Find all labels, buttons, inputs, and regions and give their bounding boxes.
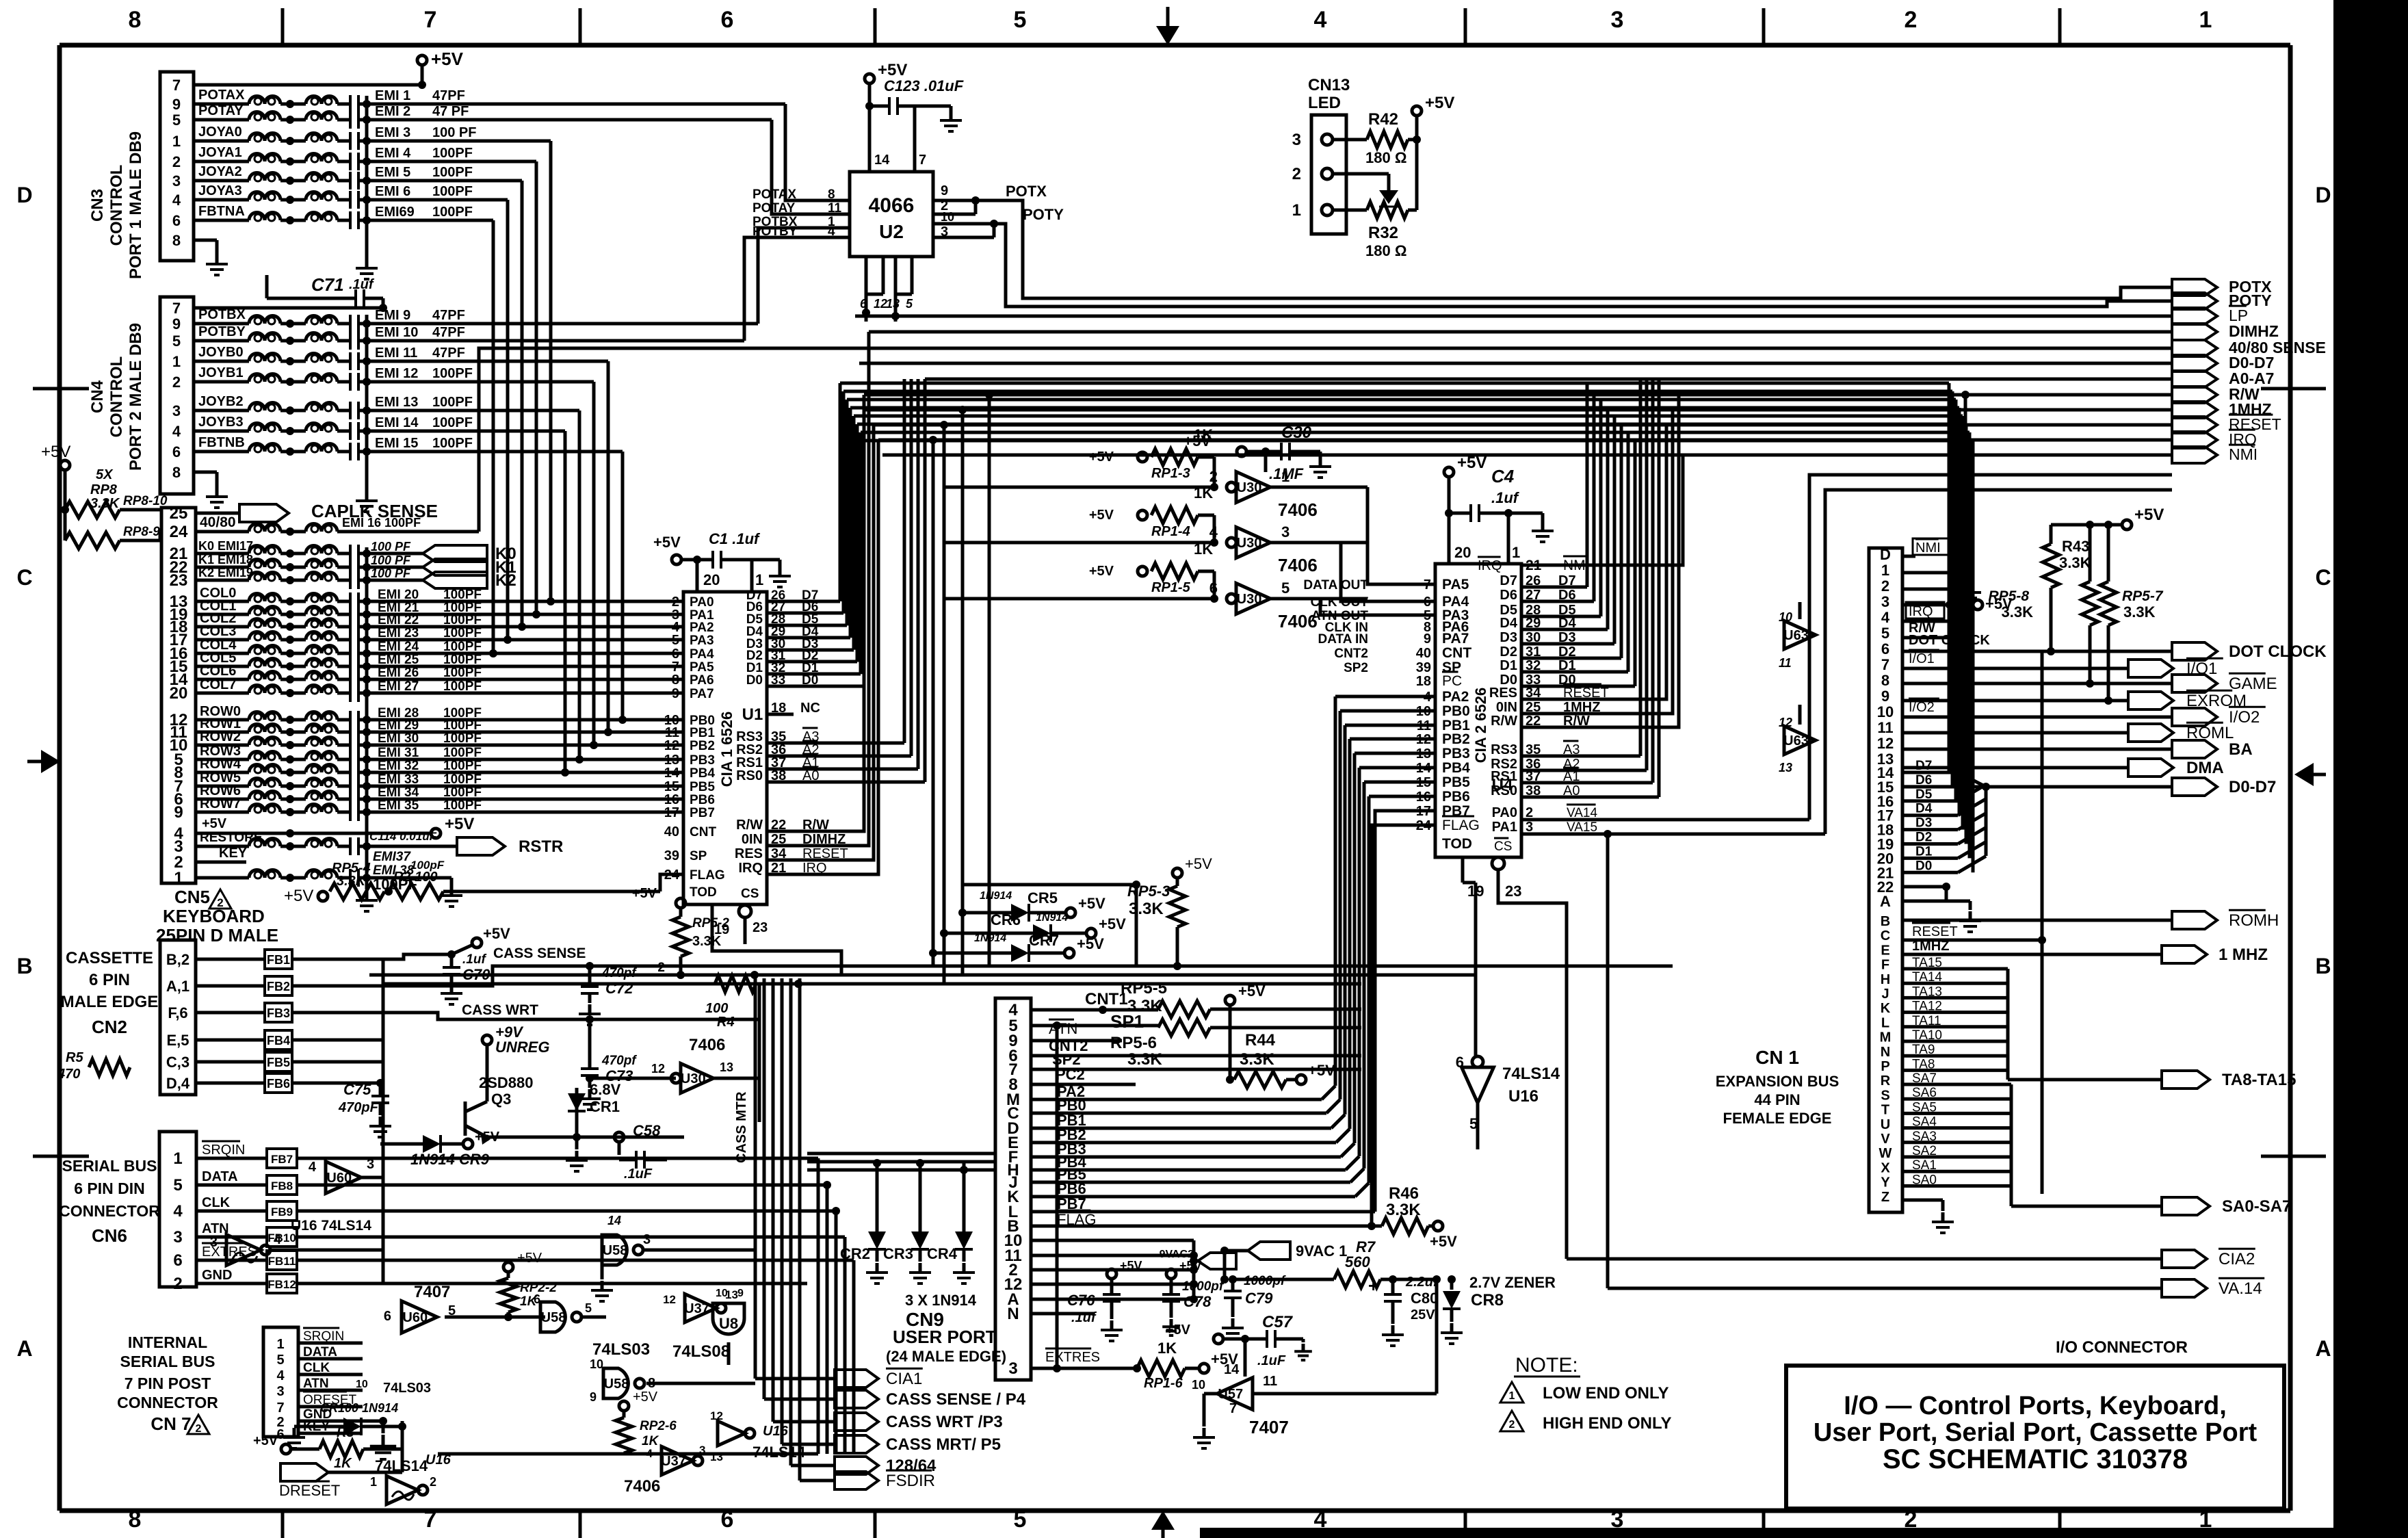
svg-text:1: 1 [1881, 562, 1889, 579]
svg-text:7407: 7407 [1249, 1417, 1289, 1437]
svg-text:FB3: FB3 [267, 1006, 290, 1020]
svg-text:U58: U58 [603, 1243, 628, 1258]
svg-text:TA8-TA15: TA8-TA15 [2222, 1071, 2296, 1089]
svg-text:BA: BA [2229, 740, 2253, 759]
svg-text:CONNECTOR: CONNECTOR [117, 1394, 218, 1411]
svg-text:PB1: PB1 [690, 726, 715, 740]
svg-text:CR3: CR3 [883, 1245, 913, 1262]
svg-text:6.8V: 6.8V [590, 1081, 621, 1098]
svg-text:14: 14 [874, 153, 890, 168]
svg-text:FB1: FB1 [267, 953, 290, 967]
svg-text:U8: U8 [719, 1315, 738, 1332]
svg-text:FB7: FB7 [271, 1153, 293, 1166]
svg-text:U37: U37 [661, 1454, 686, 1469]
svg-text:PA2: PA2 [690, 621, 714, 635]
svg-text:CLK: CLK [202, 1195, 231, 1210]
svg-text:+5V: +5V [1089, 449, 1114, 465]
svg-text:SERIAL BUS: SERIAL BUS [62, 1157, 157, 1175]
svg-text:EMI 16 100PF: EMI 16 100PF [342, 516, 421, 530]
svg-text:9VAC 1: 9VAC 1 [1296, 1242, 1347, 1260]
svg-text:DMA: DMA [2186, 759, 2224, 777]
svg-text:D4: D4 [1915, 802, 1933, 816]
svg-text:24: 24 [664, 868, 680, 883]
svg-text:R/W: R/W [736, 818, 763, 833]
svg-text:POTY: POTY [1023, 206, 1064, 223]
svg-text:3: 3 [1008, 1359, 1017, 1378]
svg-text:3.3K: 3.3K [692, 934, 722, 949]
svg-text:IRQ: IRQ [738, 861, 763, 876]
svg-text:A: A [1880, 893, 1891, 910]
svg-text:FB2: FB2 [267, 980, 290, 993]
svg-text:100PF: 100PF [432, 205, 473, 220]
svg-text:E,5: E,5 [166, 1032, 189, 1049]
svg-text:POTBX: POTBX [198, 307, 246, 322]
svg-text:2: 2 [1292, 165, 1301, 183]
svg-text:IRQ: IRQ [1478, 558, 1502, 573]
svg-text:U30: U30 [681, 1071, 706, 1086]
svg-text:13: 13 [1779, 761, 1792, 774]
svg-text:+5V: +5V [1089, 508, 1114, 523]
svg-text:FBTNA: FBTNA [198, 204, 245, 219]
svg-text:13: 13 [720, 1060, 733, 1074]
svg-text:+5V: +5V [632, 886, 657, 901]
svg-text:4: 4 [173, 1202, 183, 1221]
svg-text:8: 8 [672, 673, 679, 688]
svg-text:0IN: 0IN [1496, 700, 1517, 715]
svg-text:7407: 7407 [414, 1283, 450, 1301]
svg-text:D7: D7 [1915, 759, 1932, 773]
svg-text:EMI 10: EMI 10 [375, 325, 418, 340]
svg-text:2: 2 [430, 1475, 436, 1489]
svg-text:1: 1 [1292, 201, 1301, 220]
svg-text:7406: 7406 [1278, 499, 1318, 520]
svg-text:PA5: PA5 [1442, 577, 1469, 592]
svg-text:0IN: 0IN [742, 832, 763, 847]
svg-text:SP2: SP2 [1344, 661, 1368, 675]
svg-text:D2: D2 [1500, 644, 1517, 660]
svg-text:7 PIN POST: 7 PIN POST [125, 1374, 211, 1392]
svg-text:6: 6 [1881, 640, 1889, 657]
svg-text:6: 6 [534, 1292, 540, 1306]
svg-text:6: 6 [721, 1507, 734, 1533]
svg-text:4: 4 [1209, 523, 1218, 540]
svg-text:1: 1 [172, 353, 181, 370]
svg-text:1: 1 [2199, 7, 2212, 33]
svg-text:3: 3 [276, 1384, 284, 1399]
svg-text:ROW7: ROW7 [200, 796, 241, 811]
svg-text:1K: 1K [642, 1434, 659, 1448]
svg-text:EMI 14: EMI 14 [375, 415, 419, 430]
svg-text:POTAX: POTAX [198, 88, 245, 103]
svg-text:.1MF: .1MF [1269, 465, 1304, 482]
svg-text:TOD: TOD [1442, 836, 1472, 852]
svg-text:D: D [16, 183, 32, 207]
svg-text:PB3: PB3 [690, 753, 715, 768]
svg-text:I/O2: I/O2 [1909, 700, 1935, 715]
svg-text:7406: 7406 [1278, 611, 1318, 631]
svg-text:EMI 13: EMI 13 [375, 395, 418, 410]
svg-text:POTAY: POTAY [198, 103, 244, 118]
svg-text:U58: U58 [604, 1377, 629, 1392]
svg-text:CN5: CN5 [174, 887, 210, 907]
svg-text:HIGH END ONLY: HIGH END ONLY [1543, 1414, 1671, 1433]
svg-text:12: 12 [651, 1062, 665, 1076]
svg-text:2.7V ZENER: 2.7V ZENER [1469, 1274, 1556, 1291]
svg-text:23: 23 [752, 920, 768, 935]
svg-text:9: 9 [941, 183, 948, 198]
svg-text:PB0: PB0 [1442, 703, 1470, 719]
svg-text:C57: C57 [1262, 1313, 1294, 1331]
svg-text:C,3: C,3 [166, 1054, 189, 1071]
svg-text:CASS WRT: CASS WRT [462, 1002, 538, 1018]
svg-text:+5V: +5V [1089, 564, 1114, 579]
svg-text:+5V: +5V [1425, 94, 1454, 112]
svg-text:23: 23 [1505, 883, 1521, 900]
svg-text:1: 1 [755, 571, 763, 588]
svg-text:20: 20 [703, 571, 720, 588]
svg-text:C79: C79 [1245, 1290, 1273, 1307]
svg-text:D: D [2315, 183, 2331, 207]
svg-text:2: 2 [1209, 468, 1218, 485]
svg-text:U16 74LS14: U16 74LS14 [291, 1218, 371, 1234]
svg-text:11: 11 [1779, 656, 1792, 670]
svg-text:5: 5 [172, 112, 181, 129]
svg-text:NOTE:: NOTE: [1515, 1354, 1578, 1377]
svg-text:C123 .01uF: C123 .01uF [884, 77, 964, 94]
svg-text:2: 2 [1509, 1419, 1515, 1431]
svg-text:EMI 3: EMI 3 [375, 125, 410, 140]
svg-text:EMI 12: EMI 12 [375, 366, 418, 381]
svg-text:1000pf: 1000pf [1244, 1274, 1286, 1288]
svg-text:DATA: DATA [202, 1169, 238, 1184]
svg-text:I/O CONNECTOR: I/O CONNECTOR [2056, 1338, 2188, 1357]
svg-text:PB4: PB4 [1442, 760, 1470, 776]
svg-text:RSTR: RSTR [519, 837, 563, 856]
svg-text:+5V: +5V [1166, 1322, 1191, 1338]
svg-text:LOW END ONLY: LOW END ONLY [1543, 1384, 1668, 1403]
svg-text:I/O — Control Ports, Keyboard,: I/O — Control Ports, Keyboard, [1844, 1392, 2227, 1420]
svg-text:CASS SENSE / P4: CASS SENSE / P4 [886, 1390, 1026, 1409]
svg-text:CASS WRT /P3: CASS WRT /P3 [886, 1413, 1003, 1431]
svg-text:PA4: PA4 [690, 647, 714, 662]
svg-text:I/O1: I/O1 [1909, 651, 1935, 666]
svg-text:47PF: 47PF [432, 325, 465, 340]
svg-text:1: 1 [174, 869, 183, 887]
svg-text:3.3K: 3.3K [2123, 603, 2156, 621]
svg-text:K2 EMI19: K2 EMI19 [198, 566, 253, 579]
svg-text:3: 3 [172, 172, 181, 190]
svg-text:R2 100: R2 100 [393, 870, 438, 885]
svg-text:D1: D1 [1500, 658, 1517, 673]
svg-text:10: 10 [1192, 1378, 1205, 1392]
svg-text:C76: C76 [1067, 1292, 1095, 1309]
svg-text:NMI: NMI [2229, 445, 2257, 463]
svg-text:CR100 1N914: CR100 1N914 [320, 1401, 398, 1415]
svg-text:C71: C71 [311, 274, 344, 295]
svg-text:4: 4 [828, 224, 835, 239]
svg-text:9: 9 [172, 315, 181, 333]
svg-text:DATA IN: DATA IN [1318, 632, 1368, 647]
svg-text:8: 8 [1881, 672, 1889, 689]
svg-text:JOYB0: JOYB0 [198, 345, 244, 360]
svg-text:7: 7 [919, 153, 926, 168]
svg-text:7: 7 [1881, 656, 1889, 673]
svg-text:U30: U30 [1237, 536, 1262, 551]
svg-text:2: 2 [1881, 577, 1889, 595]
svg-text:12: 12 [1779, 716, 1792, 729]
svg-text:7: 7 [424, 1507, 437, 1533]
svg-text:CNT2: CNT2 [1334, 647, 1368, 661]
svg-text:74LS03: 74LS03 [592, 1340, 650, 1359]
svg-text:9VAC2: 9VAC2 [1160, 1249, 1194, 1260]
svg-text:RP8: RP8 [90, 482, 118, 497]
svg-text:3.3K: 3.3K [1129, 900, 1164, 918]
svg-text:SERIAL BUS: SERIAL BUS [120, 1353, 215, 1370]
svg-text:ROW2: ROW2 [200, 729, 241, 744]
svg-text:RP5-6: RP5-6 [1110, 1034, 1157, 1052]
svg-text:47PF: 47PF [432, 88, 465, 103]
svg-text:3 X 1N914: 3 X 1N914 [905, 1292, 977, 1309]
svg-text:RES: RES [1489, 686, 1517, 701]
svg-text:R46: R46 [1389, 1184, 1419, 1203]
svg-text:FB8: FB8 [271, 1179, 293, 1192]
svg-text:MALE EDGE: MALE EDGE [61, 993, 159, 1011]
svg-text:POTBY: POTBY [752, 224, 798, 239]
svg-text:+5V: +5V [1185, 855, 1212, 872]
svg-text:1K: 1K [1157, 1340, 1177, 1357]
svg-text:L: L [1881, 1015, 1889, 1030]
svg-text:1N914: 1N914 [980, 890, 1012, 902]
svg-text:17: 17 [664, 805, 679, 820]
svg-text:PA7: PA7 [690, 687, 714, 701]
svg-text:470: 470 [57, 1067, 80, 1082]
svg-text:5: 5 [672, 633, 679, 648]
svg-text:PB2: PB2 [690, 739, 715, 753]
svg-text:9: 9 [174, 803, 183, 822]
svg-text:CS: CS [1494, 839, 1512, 854]
svg-text:1000pf: 1000pf [1182, 1279, 1225, 1294]
svg-text:RP1-4: RP1-4 [1151, 524, 1190, 539]
svg-text:R44: R44 [1245, 1031, 1276, 1050]
svg-text:RS3: RS3 [1491, 742, 1517, 757]
svg-text:C75: C75 [343, 1081, 371, 1098]
svg-text:+5V: +5V [445, 815, 474, 833]
svg-text:RS1: RS1 [1491, 769, 1517, 784]
svg-text:EMI 6: EMI 6 [375, 184, 410, 199]
svg-text:K0 EMI17: K0 EMI17 [198, 539, 253, 553]
svg-text:U60: U60 [402, 1310, 428, 1325]
svg-text:INTERNAL: INTERNAL [128, 1333, 207, 1351]
svg-text:2SD880: 2SD880 [479, 1074, 534, 1091]
svg-text:+5V: +5V [284, 887, 313, 905]
svg-text:1: 1 [1512, 544, 1520, 561]
svg-text:A: A [2315, 1336, 2331, 1361]
svg-text:DATA: DATA [303, 1345, 337, 1359]
svg-text:UNREG: UNREG [495, 1039, 549, 1056]
svg-text:EMI 11: EMI 11 [375, 346, 417, 361]
svg-text:CR5: CR5 [1028, 889, 1058, 907]
svg-text:25V: 25V [1411, 1307, 1435, 1322]
svg-text:11: 11 [1877, 719, 1893, 736]
svg-text:6 PIN: 6 PIN [89, 971, 130, 989]
svg-text:PA0: PA0 [1492, 805, 1517, 820]
svg-text:40/80: 40/80 [200, 514, 236, 530]
svg-text:PA7: PA7 [1442, 631, 1469, 647]
svg-text:1: 1 [276, 1337, 284, 1352]
svg-text:USER PORT: USER PORT [893, 1327, 997, 1347]
svg-text:B: B [16, 954, 32, 978]
svg-text:5: 5 [173, 1176, 182, 1195]
svg-text:P: P [1881, 1059, 1889, 1074]
svg-text:RS0: RS0 [736, 768, 763, 783]
svg-text:1N914: 1N914 [1036, 912, 1068, 924]
svg-text:CR1: CR1 [590, 1098, 620, 1115]
svg-text:100PF: 100PF [432, 395, 473, 410]
svg-text:CIA 1 6526: CIA 1 6526 [718, 712, 735, 787]
svg-text:10: 10 [1779, 610, 1792, 624]
svg-text:PA6: PA6 [690, 673, 714, 688]
svg-text:LED: LED [1308, 94, 1341, 112]
svg-text:CONTROL: CONTROL [107, 165, 126, 246]
svg-text:5: 5 [1014, 1507, 1027, 1533]
svg-text:100PF: 100PF [432, 415, 473, 430]
svg-text:40: 40 [1416, 646, 1431, 661]
svg-text:CR7: CR7 [1029, 932, 1059, 949]
svg-text:2: 2 [657, 961, 665, 975]
svg-text:+5V: +5V [653, 534, 681, 551]
svg-text:JOYB2: JOYB2 [198, 394, 244, 409]
svg-text:S: S [1881, 1088, 1889, 1103]
svg-text:(24 MALE EDGE): (24 MALE EDGE) [886, 1348, 1006, 1365]
svg-text:CNT1: CNT1 [1085, 990, 1128, 1008]
svg-text:PB4: PB4 [690, 766, 715, 781]
svg-text:FB12: FB12 [267, 1278, 296, 1291]
svg-text:CR4: CR4 [927, 1245, 958, 1262]
svg-text:6: 6 [384, 1309, 391, 1324]
svg-text:D,4: D,4 [166, 1075, 190, 1092]
svg-text:8: 8 [129, 1507, 142, 1533]
svg-text:D3: D3 [1915, 816, 1932, 831]
svg-text:CN 1: CN 1 [1755, 1047, 1799, 1068]
svg-text:1K: 1K [334, 1456, 352, 1471]
svg-text:10: 10 [941, 210, 954, 224]
svg-text:560: 560 [1345, 1253, 1370, 1270]
svg-text:SP: SP [690, 849, 707, 863]
svg-text:25PIN D MALE: 25PIN D MALE [156, 925, 278, 946]
svg-text:R43: R43 [2062, 538, 2089, 555]
svg-text:3: 3 [941, 224, 948, 239]
svg-text:R/W: R/W [1491, 714, 1517, 729]
svg-text:EMI 15: EMI 15 [375, 436, 418, 451]
svg-text:CASSETTE: CASSETTE [66, 949, 153, 967]
svg-text:9: 9 [672, 686, 679, 701]
svg-text:5: 5 [585, 1301, 592, 1315]
svg-text:D3: D3 [1500, 630, 1517, 645]
svg-text:10: 10 [1877, 703, 1894, 720]
svg-text:3.3K: 3.3K [337, 874, 367, 889]
svg-text:R32: R32 [1368, 224, 1398, 242]
svg-text:U2: U2 [879, 221, 904, 242]
svg-text:3.3K: 3.3K [2002, 603, 2034, 621]
svg-text:CN13: CN13 [1308, 76, 1350, 94]
svg-text:+5V: +5V [1120, 1259, 1142, 1273]
svg-text:PB3: PB3 [1442, 746, 1470, 761]
svg-text:X: X [1881, 1160, 1890, 1175]
svg-text:100: 100 [705, 1001, 728, 1016]
svg-text:.1uf: .1uf [1071, 1310, 1097, 1325]
svg-text:JOYB3: JOYB3 [198, 415, 244, 430]
svg-text:12: 12 [664, 738, 679, 753]
svg-text:11: 11 [1263, 1374, 1277, 1389]
svg-text:FB11: FB11 [268, 1255, 296, 1268]
svg-text:PC2: PC2 [1056, 1066, 1085, 1083]
svg-text:R4: R4 [717, 1015, 735, 1030]
svg-text:7406: 7406 [1278, 555, 1318, 575]
svg-text:4: 4 [1881, 609, 1890, 626]
svg-text:CIA1: CIA1 [886, 1370, 922, 1388]
svg-text:100 PF: 100 PF [371, 540, 411, 553]
svg-text:JOYA0: JOYA0 [198, 125, 242, 140]
svg-text:100PF: 100PF [432, 436, 473, 451]
svg-text:VA.14: VA.14 [2219, 1279, 2262, 1298]
svg-text:6: 6 [172, 443, 181, 460]
svg-text:CR6: CR6 [991, 911, 1021, 928]
svg-text:CIA2: CIA2 [2219, 1250, 2255, 1268]
svg-text:20: 20 [170, 684, 188, 703]
svg-text:FSDIR: FSDIR [886, 1472, 935, 1490]
svg-text:3.3K: 3.3K [2059, 554, 2091, 571]
svg-text:+5V: +5V [1099, 915, 1126, 933]
svg-text:.1uF: .1uF [1257, 1353, 1286, 1368]
svg-text:6: 6 [721, 7, 734, 33]
svg-text:4066: 4066 [869, 194, 915, 217]
svg-text:RP5-3: RP5-3 [1127, 883, 1170, 900]
svg-text:CR8: CR8 [1471, 1291, 1504, 1309]
svg-text:6: 6 [1456, 1054, 1464, 1071]
svg-text:DRESET: DRESET [279, 1482, 340, 1499]
svg-text:9: 9 [1881, 688, 1889, 705]
svg-text:PB7: PB7 [690, 806, 715, 820]
svg-text:D: D [1880, 546, 1891, 563]
svg-text:IRQ: IRQ [1909, 604, 1933, 619]
svg-text:2: 2 [172, 153, 181, 170]
svg-text:25: 25 [170, 504, 188, 523]
svg-text:7: 7 [424, 7, 437, 33]
svg-text:7: 7 [172, 300, 181, 317]
svg-text:EMI 9: EMI 9 [375, 308, 410, 323]
svg-text:CASS MRT/ P5: CASS MRT/ P5 [886, 1435, 1001, 1454]
svg-text:.1uf: .1uf [349, 277, 375, 292]
svg-text:ATN: ATN [1049, 1020, 1077, 1037]
svg-text:C58: C58 [633, 1122, 661, 1139]
svg-text:C1 .1uf: C1 .1uf [709, 530, 761, 547]
svg-text:C80: C80 [1411, 1290, 1438, 1307]
svg-text:POTAX: POTAX [752, 187, 796, 202]
svg-text:39: 39 [664, 848, 679, 863]
svg-text:U57: U57 [1218, 1387, 1243, 1402]
svg-text:SA0-SA7: SA0-SA7 [2222, 1197, 2291, 1216]
svg-text:C: C [2315, 565, 2331, 590]
svg-text:100PF: 100PF [432, 165, 473, 180]
svg-text:RP1-6: RP1-6 [1144, 1376, 1183, 1391]
svg-text:3: 3 [1881, 593, 1889, 610]
svg-text:GND: GND [202, 1268, 232, 1283]
svg-text:U63: U63 [1783, 628, 1809, 643]
svg-text:5X: 5X [96, 467, 114, 482]
svg-text:12: 12 [710, 1409, 723, 1422]
svg-text:U: U [1881, 1117, 1890, 1132]
svg-text:JOYA1: JOYA1 [198, 145, 242, 160]
